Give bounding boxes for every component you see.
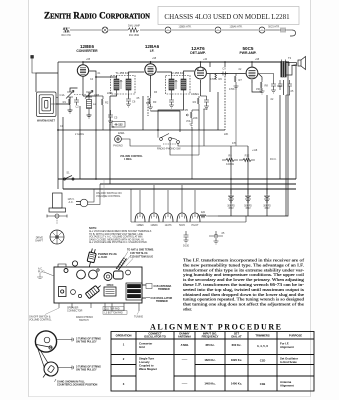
phono plug detail xyxy=(86,248,97,268)
svg-text:22Ω: 22Ω xyxy=(201,212,206,214)
heater socket 50C5 xyxy=(177,213,187,227)
svg-text:C1D BOTTOM SLUG: C1D BOTTOM SLUG xyxy=(130,256,153,259)
wire T1 sec gnd xyxy=(128,94,130,98)
svg-text:Zenith Radio Corporation: Zenith Radio Corporation xyxy=(44,11,150,22)
resistor R13 hum filter xyxy=(198,212,218,218)
heater 12AT6 xyxy=(259,27,280,34)
leader pulley A xyxy=(57,338,74,342)
wire volume cold end xyxy=(191,127,193,179)
svg-text:150Ω: 150Ω xyxy=(256,88,262,91)
antenna terminal mark xyxy=(31,56,36,74)
svg-text:455 Kc.: 455 Kc. xyxy=(205,343,215,347)
electrolytic C14C xyxy=(263,189,271,210)
svg-text:1620 Kc.: 1620 Kc. xyxy=(231,358,243,362)
svg-text:I.F.: I.F. xyxy=(150,49,155,53)
svg-text:R5: R5 xyxy=(185,108,189,112)
svg-text:ANTENNA: ANTENNA xyxy=(178,335,191,339)
svg-text:FREQUENCY: FREQUENCY xyxy=(202,335,219,339)
radio phono switch S2 xyxy=(157,130,248,155)
resistor R6 grid 50C5 xyxy=(215,74,222,82)
wire 12BA6 top xyxy=(150,61,152,62)
wire vertical 231 xyxy=(230,146,232,216)
chassis socket V1 xyxy=(64,269,85,279)
svg-text:5/150: 5/150 xyxy=(183,245,190,248)
wire 12AT6 cathode down xyxy=(200,83,202,96)
svg-text:.5 Mfd.: .5 Mfd. xyxy=(180,343,189,347)
chassis if can bottom xyxy=(104,284,116,296)
tuning gang C1B osc xyxy=(85,91,99,99)
label C2 value xyxy=(60,57,297,161)
wire T2 grid return vertical xyxy=(142,96,144,130)
svg-text:VOLUME CONTROL: VOLUME CONTROL xyxy=(96,194,121,198)
svg-text:R11 150Ω: R11 150Ω xyxy=(129,35,140,37)
svg-text:C1D: C1D xyxy=(260,359,266,363)
svg-text:DET.AMP.: DET.AMP. xyxy=(190,51,206,55)
label speaker connector xyxy=(67,307,83,313)
svg-text:TRIMMER: TRIMMER xyxy=(156,300,168,303)
wire right B plus vertical xyxy=(295,66,297,179)
svg-text:OSCILLATOR TO: OSCILLATOR TO xyxy=(144,335,166,339)
svg-text:R6: R6 xyxy=(219,77,223,81)
T2 primary coil xyxy=(169,76,174,95)
tube V3 12AT6 envelope xyxy=(195,64,207,83)
IF transformer T2 can (dashed) xyxy=(166,71,191,94)
svg-text:+118: +118 xyxy=(252,149,258,152)
wire det drop vertical xyxy=(179,111,181,132)
svg-text:C2: C2 xyxy=(75,105,79,109)
svg-text:S1: S1 xyxy=(66,171,70,175)
svg-text:3, 4, 5, 6: 3, 4, 5, 6 xyxy=(257,344,268,348)
speaker LS1 xyxy=(286,57,305,76)
svg-text:SHAFT: SHAFT xyxy=(35,239,43,242)
svg-text:470K: 470K xyxy=(229,88,235,91)
svg-text:220K: 220K xyxy=(107,92,113,95)
heater 12BA6 xyxy=(215,26,243,34)
svg-text:12BE6 HTR.: 12BE6 HTR. xyxy=(179,27,192,29)
chassis gang capacitor xyxy=(114,270,131,279)
svg-text:R4: R4 xyxy=(193,100,197,104)
main schematic wires xyxy=(36,61,296,216)
T1 secondary coil xyxy=(126,76,131,95)
svg-text:ON THIS PULLEY: ON THIS PULLEY xyxy=(76,369,97,372)
svg-text:NOTE:: NOTE: xyxy=(89,226,97,230)
svg-text:46-132: 46-132 xyxy=(114,123,123,127)
svg-text:& JACK: & JACK xyxy=(98,256,108,259)
svg-text:12BA6: 12BA6 xyxy=(145,44,160,49)
oscillator coil L2 xyxy=(87,97,97,113)
table row 3 xyxy=(123,380,294,388)
wire osc section xyxy=(88,92,90,97)
svg-text:+40: +40 xyxy=(203,58,208,61)
wire bus B minus 2 xyxy=(100,183,296,185)
capacitor C12 xyxy=(286,80,292,95)
boxed slug labels xyxy=(103,307,127,315)
wire 50C5 plate up xyxy=(251,62,253,64)
svg-text:50C5: 50C5 xyxy=(243,46,254,51)
svg-text:1620 Kc.: 1620 Kc. xyxy=(204,358,216,362)
svg-text:50C5 HTR.: 50C5 HTR. xyxy=(268,27,280,29)
capacitor C11 xyxy=(278,80,283,90)
svg-text:other.: other. xyxy=(183,307,192,312)
capacitor C10 tone xyxy=(258,74,282,94)
chassis speaker socket xyxy=(59,287,67,297)
svg-text:10MEG: 10MEG xyxy=(191,93,199,96)
wire det out to switch xyxy=(198,130,200,155)
pilot lamp P1 xyxy=(102,27,108,33)
label AC plug left xyxy=(37,268,54,279)
svg-text:GANG CLOSED. MEASURED WITH NO: GANG CLOSED. MEASURED WITH NO SIGNAL IN. xyxy=(89,238,144,241)
note text block xyxy=(89,226,152,244)
wire det load xyxy=(198,110,200,130)
capacitor C2 xyxy=(74,97,79,109)
svg-text:PLUG: PLUG xyxy=(38,270,45,273)
capacitor line bypass xyxy=(279,28,287,33)
label on-off volume xyxy=(96,179,122,198)
svg-text:C1A: C1A xyxy=(59,93,64,97)
svg-text:50C5: 50C5 xyxy=(179,224,185,227)
svg-text:CONVERTER: CONVERTER xyxy=(76,49,98,53)
svg-text:455KC: 455KC xyxy=(106,284,113,287)
wave magnet loop antenna L1 xyxy=(37,92,59,123)
page left edge xyxy=(28,0,30,397)
wire shield dashed xyxy=(147,96,149,116)
tube label 12BA6 I.F. xyxy=(145,44,160,53)
chassis small parts xyxy=(71,269,100,298)
leader pulley B xyxy=(58,366,74,370)
label string pulley B xyxy=(76,365,101,371)
dial pulley B hub xyxy=(43,365,55,377)
svg-text:R10 47Ω: R10 47Ω xyxy=(61,35,70,37)
wire gang to grid xyxy=(70,88,78,92)
chassis leader pins bottom xyxy=(59,303,139,311)
wire heater row xyxy=(131,189,246,222)
wire plate bus top xyxy=(83,61,289,63)
on-off switch S1 xyxy=(58,171,80,181)
svg-text:1400 Kc.: 1400 Kc. xyxy=(231,382,243,386)
svg-text:R7: R7 xyxy=(239,78,243,82)
dial pulley B xyxy=(44,362,58,376)
svg-text:12BE6: 12BE6 xyxy=(136,224,144,227)
alignment table grid xyxy=(111,332,314,392)
part number box xyxy=(112,122,125,128)
dial pulley A xyxy=(35,331,56,352)
leader labels to chassis top xyxy=(119,249,154,267)
wire T2 sec to 12AT6 grid xyxy=(184,71,195,76)
label volume control xyxy=(118,132,143,161)
svg-text:150V: 150V xyxy=(228,208,234,210)
speaker cable hatched xyxy=(116,258,127,271)
tuning shaft assembly xyxy=(47,193,67,224)
svg-text:VOL.: VOL. xyxy=(186,120,192,123)
chassis model box xyxy=(158,7,299,25)
capacitor C7 T2 xyxy=(169,98,174,108)
svg-text:C1B: C1B xyxy=(94,93,99,97)
tuning gang C1A xyxy=(59,91,74,99)
svg-text:150V: 150V xyxy=(264,208,270,210)
heater socket pilot xyxy=(190,213,200,227)
svg-text:TRIMMERS: TRIMMERS xyxy=(255,333,270,337)
svg-text:C1D TOP PAD: C1D TOP PAD xyxy=(105,307,120,310)
capacitor C8 det xyxy=(201,96,210,109)
wire top right drop xyxy=(288,62,290,66)
wire loop ground vertical xyxy=(62,117,64,189)
chassis speaker plug diagonal xyxy=(85,283,102,299)
T1 primary coil xyxy=(114,76,119,95)
svg-text:Alignment: Alignment xyxy=(280,345,294,349)
svg-text:12BA6 HTR.: 12BA6 HTR. xyxy=(230,26,243,29)
drive pulley wheel xyxy=(35,230,64,244)
resistor R7 grid leak 50C5 xyxy=(234,74,243,90)
wire shield vertical dashed xyxy=(224,73,226,130)
label string pulley A xyxy=(76,338,101,344)
dial pulley A hub xyxy=(37,337,53,349)
svg-text:R12: R12 xyxy=(245,154,250,158)
svg-text:T1 455 KC.: T1 455 KC. xyxy=(115,71,129,75)
tube label 12AT6 DET.AMP. xyxy=(190,46,206,55)
svg-text:DIAL LAMP: DIAL LAMP xyxy=(128,25,140,28)
wire output transformer drops xyxy=(284,80,287,216)
heater socket 12BE6 xyxy=(135,213,145,227)
page right edge xyxy=(310,0,312,397)
heater 50C5 hook xyxy=(290,30,296,36)
AC plug P2 xyxy=(67,184,100,207)
resistor R11 heater dropping xyxy=(128,25,140,37)
svg-text:150V: 150V xyxy=(245,208,251,210)
label phono plug xyxy=(98,252,117,259)
tube V2 12BA6 envelope xyxy=(145,62,156,79)
junction dots xyxy=(57,61,268,190)
svg-text:12BE6: 12BE6 xyxy=(80,44,94,49)
svg-text:Grid: Grid xyxy=(139,345,145,349)
table row 1 xyxy=(123,342,294,350)
svg-text:PWR.AMP.: PWR.AMP. xyxy=(240,51,257,55)
svg-text:CONNECTOR: CONNECTOR xyxy=(67,309,83,312)
svg-text:12BA6: 12BA6 xyxy=(150,224,158,227)
wire 12AT6 plate to 50C5 grid xyxy=(207,73,246,75)
wire vertical 248 xyxy=(247,146,249,216)
tube V4 50C5 envelope xyxy=(246,64,258,83)
tube label 12BE6 CONVERTER xyxy=(76,44,98,53)
svg-text:VOLTAGE 117 V. A.C. VOLUME CON: VOLTAGE 117 V. A.C. VOLUME CONTROL AT MI… xyxy=(89,236,143,239)
electrolytic C14B xyxy=(244,189,252,210)
wire 12BA6 cathode xyxy=(150,79,152,96)
svg-text:A.C.: A.C. xyxy=(68,200,73,204)
label on-off bottom xyxy=(29,308,59,321)
capacitor C5 xyxy=(108,110,118,124)
label C1B antenna trimmer xyxy=(146,284,172,292)
label radio phono switch xyxy=(76,316,93,322)
svg-text:R2: R2 xyxy=(105,101,109,105)
svg-text:C1B: C1B xyxy=(260,382,266,386)
wire tone cap xyxy=(258,74,262,81)
svg-text:1400 Kc.: 1400 Kc. xyxy=(204,382,216,386)
svg-text:ALIGNMENT PROCEDURE: ALIGNMENT PROCEDURE xyxy=(150,323,283,332)
IF transformer service note paragraph xyxy=(183,258,305,312)
wire loop top xyxy=(36,73,58,92)
resistor R12 filter2 xyxy=(239,154,255,162)
svg-text:A.V.C.: A.V.C. xyxy=(118,132,125,135)
svg-text:R.F.C.: R.F.C. xyxy=(270,158,277,161)
resistor R3 12BA6 cathode xyxy=(148,96,157,110)
svg-text:to End Scale: to End Scale xyxy=(280,360,297,364)
svg-text:R8: R8 xyxy=(265,84,269,88)
resistor R2 screen xyxy=(96,96,109,130)
svg-text:+98: +98 xyxy=(152,57,157,60)
wire under T1 xyxy=(109,96,111,130)
resistor R4 det diode load xyxy=(193,96,199,110)
wire ave vertical 218 xyxy=(217,92,219,130)
output transformer T3 xyxy=(281,56,292,77)
wire osc coil down xyxy=(83,80,96,96)
electrolytic C14A xyxy=(227,189,235,210)
T1 slug arrows xyxy=(120,80,122,89)
wire cathode to det horizontal xyxy=(151,110,181,112)
svg-text:SWITCH: SWITCH xyxy=(79,319,89,322)
wire bottom right bus xyxy=(218,62,288,216)
svg-text:——: —— xyxy=(182,381,188,385)
table header row xyxy=(116,331,303,338)
svg-text:L3 BOTTOM PAD: L3 BOTTOM PAD xyxy=(105,312,124,315)
chassis socket V2 xyxy=(89,270,98,279)
svg-text:TRIMMER: TRIMMER xyxy=(158,288,170,291)
svg-text:T2 455 KC.: T2 455 KC. xyxy=(170,71,184,75)
svg-text:COUNTERCLOCKWISE POSITION: COUNTERCLOCKWISE POSITION xyxy=(57,384,97,387)
tube label 50C5 PWR.AMP. xyxy=(240,46,257,55)
label C1D oscillator trimmer xyxy=(146,297,172,303)
svg-text:12AT6: 12AT6 xyxy=(165,224,173,227)
svg-text:TO B- WITH A 1000 OHM PER VOLT: TO B- WITH A 1000 OHM PER VOLT METER. LI… xyxy=(89,233,143,236)
svg-text:CHASSIS 4LO3 USED ON MODEL L22: CHASSIS 4LO3 USED ON MODEL L2281 xyxy=(164,13,290,21)
svg-text:——: —— xyxy=(182,358,188,362)
svg-text:ALL VOLTAGES MEASURED FROM SOC: ALL VOLTAGES MEASURED FROM SOCKET TERMIN… xyxy=(89,230,152,233)
wire screen bypass vertical xyxy=(109,124,111,184)
wire mid vertical 210 xyxy=(209,62,211,92)
page bottom edge xyxy=(28,396,311,398)
svg-text:PURPOSE: PURPOSE xyxy=(289,333,302,337)
T2 slug arrows xyxy=(175,80,177,89)
legend capacitor C15 xyxy=(209,231,225,244)
wire under T2 xyxy=(171,94,173,98)
svg-text:VOLUME CONTROL: VOLUME CONTROL xyxy=(29,318,52,321)
ground converter cathode xyxy=(68,108,73,113)
svg-text:R1: R1 xyxy=(63,100,67,104)
wire switch to R6 xyxy=(235,86,237,146)
svg-text:R3: R3 xyxy=(153,100,157,104)
legend capacitor C13 xyxy=(183,231,190,248)
svg-text:RADIO-PHONO SW.: RADIO-PHONO SW. xyxy=(157,147,181,151)
svg-text:C9: C9 xyxy=(222,67,226,71)
wire AVC bus xyxy=(58,129,225,131)
svg-text:PILOT: PILOT xyxy=(192,224,199,227)
svg-text:600 Kc.: 600 Kc. xyxy=(232,343,242,347)
ground osc coil xyxy=(87,113,92,118)
wire T2 sec avc xyxy=(158,94,184,130)
svg-text:22K: 22K xyxy=(224,133,229,136)
svg-text:C5: C5 xyxy=(114,116,118,120)
wire converter plate right xyxy=(89,71,96,179)
IF transformer T1 can (dashed) xyxy=(111,71,136,94)
svg-text:22K: 22K xyxy=(193,116,198,120)
wire 12AT6 top xyxy=(200,62,202,64)
svg-text:PHONO: PHONO xyxy=(113,144,123,148)
ground T1 secondary via C6 xyxy=(126,98,136,107)
wire det cap drop xyxy=(203,109,205,146)
heater string wire xyxy=(70,29,292,31)
label gang position xyxy=(55,379,98,387)
svg-text:WAVEMAGNET: WAVEMAGNET xyxy=(37,120,55,123)
wire bus B minus 3 xyxy=(63,188,296,190)
svg-text:OPERATION: OPERATION xyxy=(116,333,132,337)
wire T1 sec to 12BA6 grid xyxy=(129,72,145,76)
chassis rear view outline xyxy=(54,261,142,303)
svg-text:R9: R9 xyxy=(228,154,232,158)
resistor R9 filter xyxy=(222,154,238,167)
wire vertical 280 xyxy=(279,95,281,179)
volume control R5 xyxy=(185,108,199,127)
svg-text:Wave Magnet: Wave Magnet xyxy=(139,367,157,371)
wire socket drops xyxy=(140,185,195,213)
svg-text:ALL VOLTAGES ARE POSITIVE D.C.: ALL VOLTAGES ARE POSITIVE D.C. UNLESS NO… xyxy=(89,241,148,244)
resistor R8 cathode 50C5 xyxy=(260,80,269,94)
svg-text:1 MEG.: 1 MEG. xyxy=(124,158,132,161)
wire under T1b xyxy=(110,94,117,96)
svg-text:+98: +98 xyxy=(255,58,260,61)
svg-text:TUNING: TUNING xyxy=(134,316,143,319)
dial cord xyxy=(37,345,48,368)
resistor R1 grid leak xyxy=(63,97,70,108)
table row 2 xyxy=(123,357,299,372)
svg-text:12AT6: 12AT6 xyxy=(191,46,205,51)
chassis socket V3 xyxy=(104,273,112,281)
wire 50C5 cathode xyxy=(252,83,262,92)
phono jack J1 xyxy=(113,136,161,148)
svg-text:1000Ω: 1000Ω xyxy=(226,162,234,166)
svg-text:2 GANG: 2 GANG xyxy=(75,133,84,136)
wire mid vertical 225 xyxy=(224,62,226,67)
wire left bus vertical xyxy=(57,62,59,189)
heater socket 12AT6 xyxy=(163,213,173,227)
svg-text:+95: +95 xyxy=(86,58,91,61)
svg-text:ON THIS PULLEY: ON THIS PULLEY xyxy=(76,341,97,344)
chassis output transformer xyxy=(126,283,146,300)
resistor R10 line cord xyxy=(61,28,70,37)
label tuning xyxy=(134,311,143,319)
wire bus B minus 1 xyxy=(58,178,296,180)
svg-text:Alignment: Alignment xyxy=(280,384,294,388)
wire converter top left xyxy=(58,61,83,63)
tube V1 12BE6 envelope xyxy=(77,62,88,80)
wire output transformer top xyxy=(252,61,281,63)
wire loop bottom to gang xyxy=(56,97,70,104)
wire 12BA6 plate to T2 xyxy=(157,72,172,76)
wire to T1 primary xyxy=(96,76,117,78)
heater socket 12BA6 xyxy=(149,213,159,227)
svg-text:DIAL AT: DIAL AT xyxy=(231,335,242,339)
gang ganged dashes xyxy=(74,94,86,96)
capacitor C9 coupling xyxy=(221,67,228,76)
svg-text:that turning one slug does not: that turning one slug does not affect th… xyxy=(183,302,304,307)
heater 12BE6 pins 3-4 xyxy=(165,27,192,34)
svg-text:C6: C6 xyxy=(132,100,136,104)
wire gang frame vertical xyxy=(79,106,81,179)
wire vertical 267 xyxy=(266,95,268,216)
T2 secondary coil xyxy=(181,76,186,95)
